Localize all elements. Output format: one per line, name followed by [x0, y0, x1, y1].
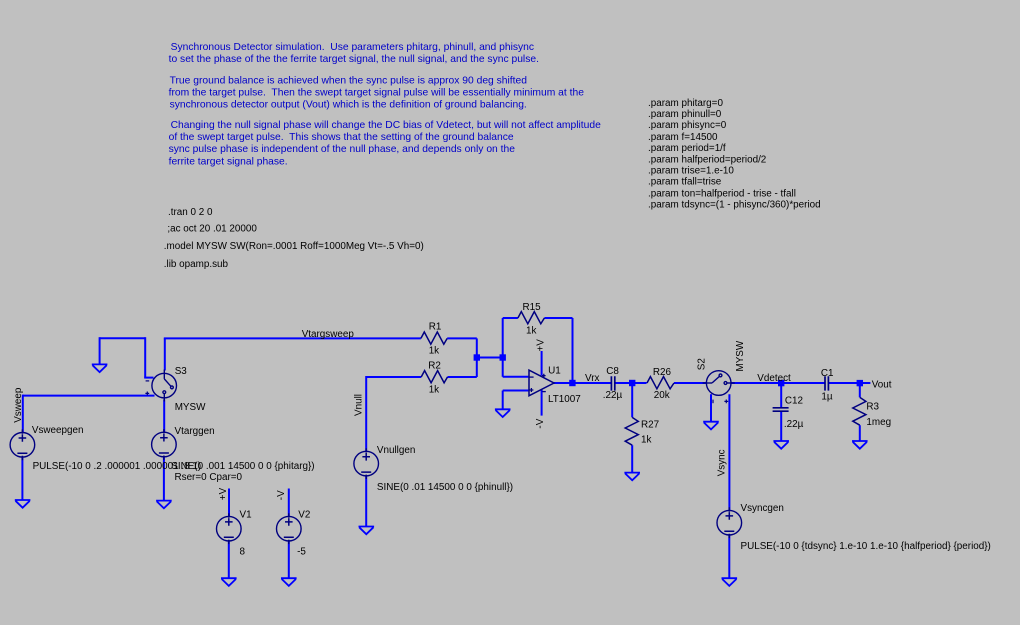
wire J2 up to R15 row	[502, 318, 504, 358]
wire R2 right lead	[448, 376, 477, 378]
switch S2 (rotated)	[703, 371, 735, 404]
node J6 Vout	[857, 380, 863, 386]
wire R27 bottom to ground	[631, 445, 633, 472]
svg-text:-V: -V	[535, 418, 546, 428]
wire Vsweep horizontal to S3 plus	[23, 395, 155, 397]
resistor R3 body (vertical)	[853, 397, 866, 425]
ground V1	[221, 578, 237, 586]
wire V1 bottom to ground	[228, 541, 230, 578]
V+ mark	[542, 374, 546, 378]
svg-text:sync pulse phase is independen: sync pulse phase is independent of the n…	[169, 144, 516, 155]
wire R15 right lead	[544, 317, 572, 319]
svg-text:.param halfperiod=period/2: .param halfperiod=period/2	[648, 155, 766, 166]
wire S2 minus control to ground	[710, 394, 712, 421]
svg-text:-5: -5	[297, 547, 306, 558]
wire R2 corner up to J1	[476, 358, 478, 378]
svg-text:+V: +V	[535, 339, 546, 352]
svg-text:.param phinull=0: .param phinull=0	[648, 109, 722, 120]
ground Vtarggen	[156, 501, 172, 509]
svg-text:;ac oct 20 .01 20000: ;ac oct 20 .01 20000	[167, 224, 257, 235]
svg-text:+V: +V	[218, 487, 229, 500]
wire R15 right vertical down to output	[572, 318, 574, 383]
svg-text:R1: R1	[429, 322, 442, 333]
svg-text:.param f=14500: .param f=14500	[648, 132, 718, 143]
switch S3	[145, 370, 176, 402]
svg-text:1k: 1k	[526, 326, 536, 337]
node J5 Vdetect	[778, 380, 784, 386]
svg-text:V2: V2	[298, 509, 310, 520]
svg-text:synchronous detector output (V: synchronous detector output (Vout) which…	[170, 100, 527, 111]
wire opamp plus input	[503, 390, 529, 392]
svg-text:SINE(0 .001 14500 0 0 {phitarg: SINE(0 .001 14500 0 0 {phitarg})	[171, 461, 314, 472]
svg-text:.22µ: .22µ	[603, 390, 623, 401]
wire J4 to R26	[632, 382, 646, 384]
wire R26 to S2	[674, 382, 707, 384]
ground Vsyncgen	[722, 578, 738, 586]
plus input mark	[529, 388, 533, 392]
resistor R1 body	[421, 332, 447, 344]
node J1 R1/R2	[474, 354, 480, 360]
svg-text:.param tdsync=(1 - phisync/360: .param tdsync=(1 - phisync/360)*period	[648, 199, 821, 210]
wire S3 bottom to Vtarggen	[163, 400, 165, 433]
wire S3 top pin up	[164, 338, 166, 370]
voltage source Vsweepgen	[10, 429, 35, 460]
wire J1 to J2	[477, 357, 503, 359]
capacitor C8 plates	[611, 376, 614, 390]
wire top-left gnd net vertical to S3 minus	[144, 337, 146, 377]
wire Vdetect to C1	[781, 382, 825, 384]
wire Vnull vertical to Vnullgen	[365, 376, 367, 451]
svg-text:1k: 1k	[429, 345, 439, 356]
svg-text:8: 8	[240, 547, 246, 558]
voltage source V1	[217, 513, 242, 544]
svg-text:to set the phase of the the fe: to set the phase of the the ferrite targ…	[169, 54, 539, 65]
svg-text:SINE(0 .01 14500 0 0 {phinull}: SINE(0 .01 14500 0 0 {phinull})	[377, 482, 513, 493]
minus input mark	[529, 376, 533, 378]
wire Vnull to R2	[366, 376, 421, 378]
svg-text:MYSW: MYSW	[735, 340, 746, 371]
svg-text:.param phisync=0: .param phisync=0	[648, 120, 727, 131]
svg-text:Vdetect: Vdetect	[757, 373, 791, 384]
ground Vsweepgen	[15, 500, 31, 508]
svg-text:1k: 1k	[641, 435, 651, 446]
svg-text:.model MYSW SW(Ron=.0001 Roff=: .model MYSW SW(Ron=.0001 Roff=1000Meg Vt…	[164, 241, 424, 252]
svg-text:.tran 0 2 0: .tran 0 2 0	[168, 207, 213, 218]
ground V2	[281, 578, 297, 586]
svg-text:S2: S2	[696, 358, 707, 370]
wire V1 top	[228, 489, 230, 517]
wire C1 to J6	[828, 382, 859, 384]
ground C12	[773, 441, 789, 449]
wire Vtarggen bottom to ground	[163, 457, 165, 501]
svg-text:True ground balance is achieve: True ground balance is achieved when the…	[170, 76, 528, 87]
wire J2 down	[502, 358, 504, 377]
svg-text:PULSE(-10 0 {tdsync} 1.e-10 1.: PULSE(-10 0 {tdsync} 1.e-10 1.e-10 {half…	[741, 541, 991, 552]
wire R27 drop from J4	[631, 383, 633, 417]
svg-text:LT1007: LT1007	[548, 394, 581, 405]
wire V2 top	[288, 489, 290, 517]
svg-text:V1: V1	[240, 509, 253, 520]
svg-text:.param tfall=trise: .param tfall=trise	[648, 177, 722, 188]
wire S2 to Vdetect	[731, 382, 782, 384]
svg-text:Vout: Vout	[872, 380, 892, 391]
capacitor C12 plates	[773, 408, 789, 411]
wire Vsync vertical	[728, 394, 730, 510]
wire V2 bottom to ground	[288, 541, 290, 578]
svg-text:Vsync: Vsync	[717, 449, 728, 476]
voltage source Vsyncgen	[717, 507, 742, 538]
svg-text:Changing the null signal phase: Changing the null signal phase will chan…	[171, 120, 602, 131]
wire Vout stub	[860, 382, 871, 384]
svg-text:from the target pulse. Then t: from the target pulse. Then the swept ta…	[169, 88, 585, 99]
wire C12 bottom to ground	[780, 411, 782, 441]
wire R3 drop from J6	[859, 383, 861, 397]
svg-text:R26: R26	[653, 367, 672, 378]
node J2 feedback	[500, 354, 506, 360]
svg-text:C12: C12	[785, 396, 803, 407]
wire R1 right lead	[447, 337, 477, 339]
svg-text:Vsyncgen: Vsyncgen	[741, 503, 784, 514]
svg-text:.param period=1/f: .param period=1/f	[648, 143, 726, 154]
ground template use	[15, 409, 868, 586]
svg-text:.param trise=1.e-10: .param trise=1.e-10	[648, 166, 734, 177]
svg-text:.22µ: .22µ	[784, 419, 804, 430]
svg-text:of the swept target pulse. Th: of the swept target pulse. This shows th…	[169, 132, 514, 143]
svg-text:Vrx: Vrx	[585, 373, 600, 384]
V- mark	[542, 391, 546, 393]
wire opamp output to C8	[554, 382, 611, 384]
wire S3 minus control stub	[144, 377, 153, 379]
node J4 C8/R26/R27	[629, 380, 635, 386]
svg-text:Vtargsweep: Vtargsweep	[302, 329, 355, 340]
S3 plus mark	[145, 392, 149, 396]
wire R1 corner down to J1	[476, 338, 478, 357]
svg-text:ferrite target signal phase.: ferrite target signal phase.	[169, 156, 288, 167]
svg-text:R15: R15	[523, 302, 542, 313]
ground S2 minus	[703, 422, 719, 430]
op-amp U1	[529, 370, 554, 396]
ground R27	[624, 473, 640, 481]
svg-text:U1: U1	[548, 366, 561, 377]
svg-text:.param phitarg=0: .param phitarg=0	[648, 98, 723, 109]
svg-text:1µ: 1µ	[821, 392, 832, 403]
wire opamp plus down	[502, 391, 504, 410]
svg-text:1meg: 1meg	[866, 417, 891, 428]
ground R3	[852, 441, 868, 449]
voltage source Vnullgen	[354, 448, 379, 479]
svg-text:R3: R3	[866, 401, 879, 412]
wire Vtargsweep horizontal to R1	[164, 337, 421, 339]
svg-text:Vnullgen: Vnullgen	[377, 445, 415, 456]
S2 plus mark	[724, 400, 728, 404]
resistor R2 body	[421, 371, 447, 383]
resistor R15 body	[518, 312, 545, 324]
svg-text:1k: 1k	[429, 384, 439, 395]
svg-text:Vsweep: Vsweep	[13, 387, 24, 423]
svg-text:S3: S3	[175, 366, 188, 377]
wire Vsyncgen bottom to ground	[728, 535, 730, 578]
svg-text:R27: R27	[641, 420, 659, 431]
svg-text:Rser=0 Cpar=0: Rser=0 Cpar=0	[175, 472, 243, 483]
wire opamp V+	[541, 351, 543, 376]
voltage source V2	[277, 513, 302, 544]
wire to opamp minus input	[503, 376, 529, 378]
svg-text:R2: R2	[428, 360, 441, 371]
svg-text:Vsweepgen: Vsweepgen	[32, 425, 84, 436]
ground G1 (S3 minus net)	[92, 364, 108, 372]
svg-text:Vnull: Vnull	[354, 394, 365, 416]
svg-text:C1: C1	[821, 368, 834, 379]
S2 minus mark	[712, 400, 714, 404]
resistor R26 body	[647, 377, 674, 389]
wire C8 to J4	[615, 382, 632, 384]
ground Vnullgen	[359, 527, 375, 535]
svg-text:.param ton=halfperiod - trise: .param ton=halfperiod - trise - tfall	[648, 188, 796, 199]
svg-text:MYSW: MYSW	[175, 402, 206, 413]
wire opamp V-	[541, 390, 543, 416]
svg-text:-V: -V	[276, 490, 287, 500]
svg-text:Vtarggen: Vtarggen	[175, 426, 215, 437]
wire ground drop G1	[99, 337, 101, 364]
voltage source Vtarggen	[152, 429, 177, 460]
svg-text:20k: 20k	[654, 390, 670, 401]
capacitor C1 plates	[825, 376, 828, 390]
wire Vsweep vertical to Vsweepgen	[22, 395, 24, 433]
wire Vdetect down to C12	[780, 383, 782, 408]
ground opamp plus input	[495, 409, 511, 417]
svg-text:C8: C8	[606, 366, 619, 377]
wire Vsweepgen bottom to ground	[21, 457, 23, 500]
svg-text:.lib opamp.sub: .lib opamp.sub	[164, 259, 229, 270]
wire R15 left lead	[503, 317, 518, 319]
svg-text:Synchronous Detector simulatio: Synchronous Detector simulation. Use par…	[171, 42, 534, 53]
wire Vnullgen bottom to ground	[365, 476, 367, 527]
S3 minus mark	[146, 380, 150, 382]
node J3 Vrx	[569, 380, 575, 386]
resistor R27 body (vertical)	[625, 417, 638, 445]
wire top-left gnd net horizontal	[100, 337, 146, 339]
wire R3 bottom to ground	[859, 425, 861, 441]
